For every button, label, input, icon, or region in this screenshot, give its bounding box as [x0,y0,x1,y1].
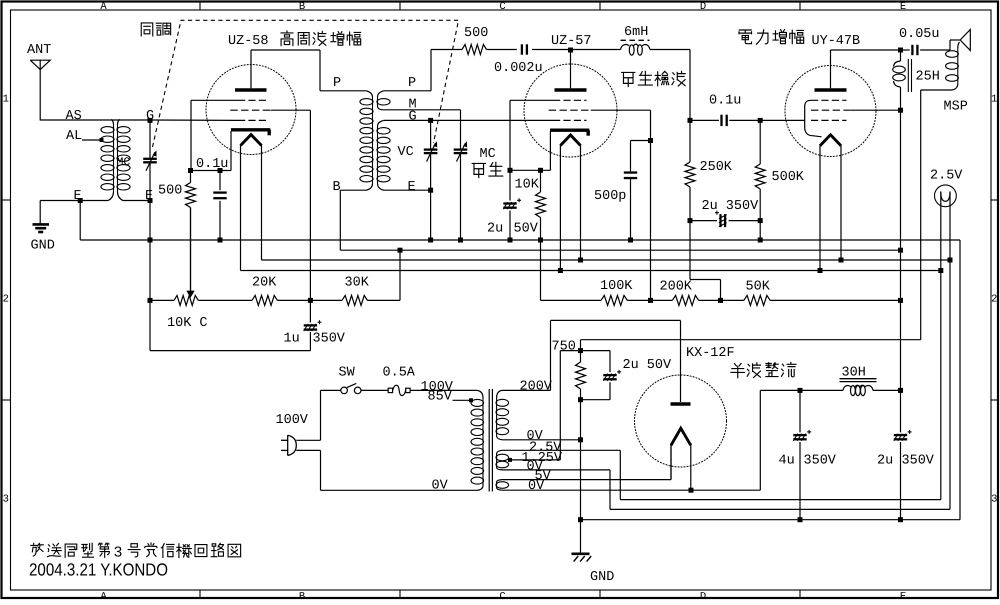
inductor 30H filter choke [800,379,901,396]
resistor 500 cathode [186,171,196,292]
svg-text:4u: 4u [779,454,795,469]
label 6mH [624,25,648,40]
svg-text:0V: 0V [528,479,545,494]
label 0.002u [494,61,543,76]
svg-text:0V: 0V [432,479,449,494]
svg-text:10K: 10K [515,178,540,193]
svg-text:B: B [333,180,341,195]
svg-text:GND: GND [31,239,55,254]
label P left [333,76,341,91]
UY-47B filament legs [820,145,841,270]
resistor 30K [310,276,400,306]
svg-text:G: G [409,109,417,124]
label 2u 50V psu [623,358,673,373]
svg-text:3: 3 [3,494,9,506]
tube UY-47B envelope [785,66,876,157]
capacitor 2u 50V hum bias [581,351,622,400]
wire 5V 0V to choke input [511,390,800,490]
UZ-58 plate and lead [235,50,267,90]
label 2.5V winding [529,441,562,456]
label UZ-57 [551,34,592,49]
wire P tap to 500 resistor [384,50,462,91]
UZ-58 screen grid wire to divider [271,110,311,300]
svg-text:P: P [333,76,341,91]
label G right [409,109,417,124]
svg-text:25H: 25H [916,70,940,85]
label 0.5A [383,366,416,381]
label 4u 350V [779,454,837,469]
svg-text:2.5V: 2.5V [930,169,963,184]
svg-text:0.5A: 0.5A [383,366,416,381]
resistor 100K [600,279,651,305]
resistor 500 feedback [462,45,487,55]
label 750 [552,340,576,355]
label B [333,180,341,195]
ground GND earth symbol [31,224,55,253]
svg-text:50K: 50K [746,280,771,295]
node choke input [798,388,803,393]
speaker MSP horn [950,30,970,51]
svg-text:6mH: 6mH [624,25,648,40]
node heater bus 260 dots [578,258,844,263]
svg-text:D: D [700,591,706,600]
svg-text:ANT: ANT [27,43,51,58]
label 0.1u cathode bypass [196,157,228,172]
variable capacitor VC antenna [143,120,157,200]
label KX-12F [686,346,735,361]
node coupling right junction [758,118,763,123]
wire ground bus [80,240,960,520]
UY-47B filament [820,135,841,146]
wire 0V line to heater bus [511,470,950,510]
node cathode junction dots [188,168,223,173]
label rectifier kanji [731,362,796,377]
node choke output [898,388,903,393]
capacitor 2u 50V cathode bypass [503,170,521,242]
wire G tap to UZ-57 grid [384,119,553,121]
svg-text:D: D [700,1,706,13]
svg-text:B: B [299,591,305,600]
antenna ANT [27,43,51,121]
tube UZ-58 envelope [206,65,296,155]
transformer PT core [489,389,492,492]
svg-text:1: 1 [991,94,997,106]
wire B tap down to B+ bus [339,190,341,250]
node plate output junction [898,48,903,53]
label 2u 50V detector [487,222,539,237]
wire VC down to ground bus and divider [148,201,153,301]
svg-text:10K C: 10K C [167,316,208,331]
label 0V 2.5V winding [527,460,544,475]
node 250K bottom [688,218,693,223]
wire plug to switch [296,390,341,440]
svg-text:A: A [100,1,107,13]
wire 1.25V tap to hum bias [510,351,581,460]
capacitor 2u 350V filter [894,390,912,519]
wire antenna to AS line [40,119,238,121]
svg-text:UY-47B: UY-47B [812,34,861,49]
transformer PT 2.5V winding [496,450,511,470]
svg-text:85V: 85V [428,390,453,405]
wire B+ vertical [900,110,902,390]
node KX filament output [689,488,694,493]
plug AC mains [281,435,296,455]
wire heater bus 260 [262,259,951,261]
label power amp kanji [739,30,804,45]
transformer PT 5V winding [496,480,511,491]
label MSP [944,100,968,115]
label SW [339,366,356,381]
wire M tap to MC capacitor [384,110,461,149]
svg-text:E: E [900,591,906,600]
svg-text:350V: 350V [804,454,837,469]
wire 30K up to B+ bus [399,250,401,300]
svg-text:E: E [900,1,906,13]
wire 750 bottom to ground [580,440,582,520]
transformer T1 antenna coil secondary [117,119,150,200]
svg-text:AL: AL [66,129,82,144]
svg-text:GND: GND [590,570,614,585]
UZ-58 cathode [231,130,270,136]
transformer T1 antenna coil primary [80,119,114,200]
resistor 200K [651,280,721,306]
node coupling left junction [688,118,693,123]
svg-text:P: P [408,76,416,91]
node rail left end [148,298,153,303]
node screen B+ junction [898,108,903,113]
label 0.05u [899,27,940,42]
node heater bus 270 dots [558,268,823,273]
node ground bus dots [578,517,903,522]
wire plug to transformer bottom [296,450,466,490]
svg-text:2u 350V: 2u 350V [702,199,760,214]
label VC [398,145,414,160]
transformer PT HV secondary [496,390,511,439]
transformer T2 secondary P section [377,91,390,110]
svg-text:100V: 100V [276,413,309,428]
UZ-58 heater legs to filament buses [241,145,262,271]
svg-text:500: 500 [158,184,182,199]
inductor 6mH RF choke [571,40,691,55]
wire 6mH down to coupling [689,50,691,121]
UZ-57 cathode [550,130,589,136]
transformer T2 primary [340,91,373,190]
label M [409,98,417,113]
wire 250K bottom to divider rail [690,221,721,301]
capacitor 0.1u coupling [690,115,760,126]
svg-text:50V: 50V [514,222,539,237]
node E junction T2 [428,188,433,193]
svg-text:500p: 500p [594,189,626,204]
svg-text:2004.3.21 Y.KONDO: 2004.3.21 Y.KONDO [29,560,168,580]
UZ-57 grid1 side wire [510,100,553,170]
dashed gang-tuning link [153,20,459,147]
svg-text:500K: 500K [772,170,805,185]
wire 500K bottom to ground bus [758,221,763,243]
label 2.5V [930,169,963,184]
svg-text:1: 1 [3,94,9,106]
switch SW [341,383,388,393]
svg-text:0.05u: 0.05u [899,27,940,42]
UZ-58 cathode lead [191,131,232,171]
label tuning doucho [141,23,170,36]
node 100K 200K junction [648,298,653,303]
potentiometer 10K C [150,208,252,332]
label MC inside T1 [117,156,131,169]
node 20K 30K junction [308,298,313,303]
label 500 feedback resistor [464,26,488,41]
svg-text:2u: 2u [487,222,503,237]
wire 0.002u to UZ-57 grid top [532,49,571,51]
svg-text:250K: 250K [700,160,733,175]
node cathode junctions UZ-57 [508,168,544,173]
resistor 500K grid leak [755,120,765,220]
wire 5V to KX filament [511,444,671,480]
label 0V HV [527,429,544,444]
label E left of T1 [74,189,82,204]
label 0V primary [432,479,449,494]
capacitor 0.002u grid [522,44,527,54]
wire grid to UY-47B [760,119,805,121]
node 200K 50K junction [718,298,723,303]
capacitor 500p [624,173,637,243]
svg-text:100K: 100K [600,279,633,294]
wire 500 to 0.002u [487,49,517,51]
title kanji [31,543,241,562]
UZ-57 plate bar and lead [555,50,587,90]
svg-text:0.1u: 0.1u [709,94,741,109]
wire lamp right lead to filament line [949,260,951,509]
inductor 25H output choke [893,50,912,110]
svg-text:MSP: MSP [944,100,968,115]
UZ-57 cathode lead [510,131,550,170]
label 100V tap [421,380,454,395]
label E right T2 [408,180,416,195]
label 2u 350V bias [702,199,760,214]
node VC junction [428,118,433,123]
capacitor 0.1u cathode bypass [213,171,226,243]
wire heater bus 270 [241,270,941,272]
resistor 50K [721,280,901,306]
UY-47B grid rows [811,100,850,120]
wire 200V to KX plate [511,320,681,390]
svg-text:350V: 350V [902,454,935,469]
label 100V mains [276,413,309,428]
UZ-57 heater filament [560,135,580,146]
label 30H [842,366,866,381]
label 1.25V [522,451,563,466]
node E right of T1 [145,189,153,204]
svg-text:20K: 20K [252,276,277,291]
UZ-57 grid rows [549,100,591,120]
svg-text:C: C [499,591,505,600]
label AS [66,109,82,124]
svg-text:KX-12F: KX-12F [686,346,735,361]
svg-text:0.002u: 0.002u [494,61,543,76]
resistor 10K cathode [536,170,546,242]
wire HV 0V return [511,439,581,441]
variable capacitor VC tuning [424,120,438,190]
capacitor 2u 350V bias electrolytic [690,211,760,227]
wire 85V tap [453,398,474,402]
svg-text:750: 750 [552,340,576,355]
label 500p [594,189,626,204]
svg-text:3: 3 [991,494,997,506]
wire UZ-58 plate to T2 primary [251,50,366,91]
svg-text:UZ-57: UZ-57 [551,34,592,49]
tube KX-12F envelope [635,375,727,467]
lamp 2.5V pilot [935,185,957,271]
wire 2.5V line to heater bus [511,450,941,499]
label 2u 350V filter [877,454,935,469]
svg-text:2: 2 [3,294,9,306]
svg-text:200V: 200V [520,380,553,395]
node 500K bottom [758,218,763,223]
wire lamp left lead to filament line [940,271,942,500]
UY-47B grid bracket [805,100,822,137]
wire UY plate to output [831,49,901,51]
svg-text:2u: 2u [877,454,893,469]
label regen detector kanji [622,71,686,86]
svg-text:30K: 30K [345,276,370,291]
UZ-57 heater legs [560,145,580,271]
svg-text:MC: MC [117,156,131,169]
title date author [29,560,168,580]
label 10K [515,178,540,193]
transformer T2 secondary G section [377,120,431,190]
wire E to ground [40,201,80,224]
label 500K [772,170,805,185]
label 25H [916,70,940,85]
node 1.25V tap [508,458,512,462]
KX-12F plate and lead [671,320,691,404]
variable capacitor MC regeneration [454,141,468,240]
label 0V 5V winding [528,479,545,494]
ground GND bottom symbol [572,520,615,585]
svg-text:0.1u: 0.1u [196,157,228,172]
label 0.1u coupling [709,94,741,109]
UZ-58 grid rows [230,100,270,120]
wire rail feed from ground bus [541,240,602,300]
svg-text:E: E [408,180,416,195]
label 85V tap [428,390,453,405]
AL tap on T1 [66,129,104,144]
node divider feed [398,248,403,253]
resistor 20K [252,276,310,306]
svg-text:SW: SW [339,366,356,381]
svg-text:C: C [499,1,505,13]
node B+ taps [898,248,903,303]
UZ-58 heater filament [241,135,262,146]
svg-text:200K: 200K [660,280,693,295]
node 750 mid junction [578,397,583,402]
svg-text:500: 500 [464,26,488,41]
UZ-58 grid1 wire [191,100,238,170]
svg-text:VC: VC [398,145,414,160]
label RF amplifier kanji [281,31,361,46]
label MC [480,147,496,162]
node E junction left [78,198,83,203]
UY-47B plate bar and lead [815,50,847,90]
svg-text:A: A [100,591,107,600]
svg-text:2: 2 [991,294,997,306]
speaker MSP voice coil [921,42,960,90]
label 1u 350V [284,332,346,347]
svg-text:UZ-58: UZ-58 [228,34,269,49]
capacitor 4u 350V filter [793,390,811,519]
node hum bias junction [578,348,583,353]
svg-text:B: B [299,1,305,13]
node G on grid line [146,109,154,124]
capacitor 0.05u output [901,45,951,55]
UY-47B screen wire [850,109,900,111]
node HV return junction [578,437,583,442]
capacitor 1u 350V bias electrolytic [304,300,322,331]
label 500 cathode resistor [158,184,182,199]
UZ-57 plate row wire to 500p and divider [591,110,651,300]
node UZ-57 grid top junction [568,48,573,53]
label UZ-58 [228,34,269,49]
svg-text:MC: MC [480,147,496,162]
wire E junction to ground bus [428,190,433,242]
svg-text:2u 50V: 2u 50V [623,358,673,373]
node lamp leads [938,258,952,274]
label 5V [535,469,552,484]
wire B+ bus 250 [340,249,900,251]
fuse 0.5A [388,385,466,395]
node 500p junction [648,138,653,143]
label UY-47B [812,34,861,49]
resistor 750 hum bias [576,351,586,440]
KX-12F filament [671,428,691,445]
label regeneration kanji [472,162,503,177]
wire speaker return [581,90,921,351]
wire jog to 500p [631,141,651,172]
transformer PT primary [466,390,484,490]
wire E junction down to ground bus [79,201,81,241]
resistor 250K grid leak [685,120,695,220]
tube UZ-57 envelope [524,64,617,157]
label 200V [520,380,553,395]
svg-text:AS: AS [66,109,82,124]
svg-text:350V: 350V [313,332,346,347]
svg-text:1u: 1u [284,332,300,347]
KX-12F filament legs [671,443,691,490]
label 250K [700,160,733,175]
label P right [408,76,416,91]
wire bias loop [150,300,310,350]
node MC ground [458,238,463,243]
